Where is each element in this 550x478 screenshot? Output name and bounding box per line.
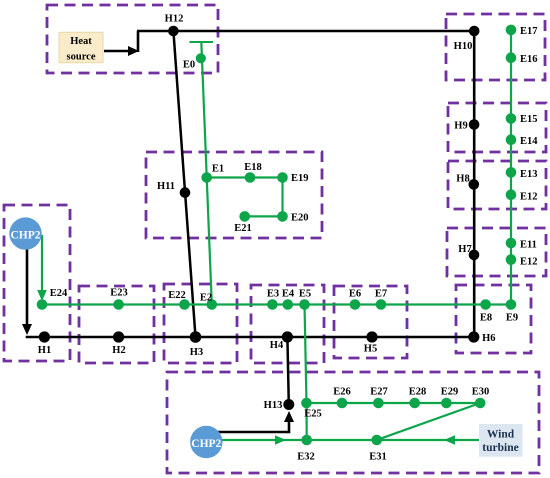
wire generator bar above E0 (green) <box>190 41 214 43</box>
wire slanted feeder E0-E1-E2 (green) <box>201 42 212 305</box>
svg-text:E25: E25 <box>304 409 322 420</box>
svg-text:E31: E31 <box>369 452 387 463</box>
node E21 <box>234 211 252 234</box>
svg-text:H10: H10 <box>454 41 473 52</box>
wind turbine <box>479 424 523 457</box>
region box middle (H11 / E1 / E18-E21) <box>146 152 322 238</box>
wire E19-E20 (green) <box>281 178 283 217</box>
node E16 <box>506 52 538 65</box>
node H8 <box>456 174 479 190</box>
svg-text:CHP2: CHP2 <box>10 230 40 242</box>
region box left tall (CHP2 / E24 / H1) <box>4 205 70 361</box>
wire CHP2a to E24 (green, down arrow) <box>37 235 47 301</box>
svg-text:Wind: Wind <box>487 429 515 441</box>
node E27 <box>370 387 388 409</box>
region box H8/E13/E12 <box>448 161 546 209</box>
node H4 <box>270 331 293 351</box>
node H12 <box>165 14 184 37</box>
region box H7/E11/E12 <box>447 228 546 276</box>
wire E5-E25-E32 (green) <box>305 305 307 441</box>
node E11 <box>506 238 537 251</box>
svg-text:E20: E20 <box>291 213 309 224</box>
node E12 lower <box>506 254 538 267</box>
node E25 <box>301 398 322 420</box>
region box E22/E2/H3 <box>164 284 237 363</box>
node E28 <box>409 387 427 409</box>
node E7 <box>375 289 387 310</box>
svg-text:E7: E7 <box>375 289 387 300</box>
node E18 <box>244 162 262 183</box>
node H7 <box>458 244 479 260</box>
svg-text:E1: E1 <box>212 164 224 175</box>
wire main electric bus E24-E9 (green) <box>42 303 511 305</box>
svg-text:H3: H3 <box>190 347 203 358</box>
node E29 <box>441 387 459 409</box>
region box top-left (heat source / H12 / E0) <box>47 5 218 73</box>
svg-text:E16: E16 <box>520 54 538 65</box>
svg-text:E23: E23 <box>110 288 128 299</box>
node H11 <box>157 181 190 198</box>
svg-text:E26: E26 <box>333 387 351 398</box>
svg-text:E0: E0 <box>183 60 195 71</box>
svg-text:H13: H13 <box>264 400 283 411</box>
CHP2 unit top-left <box>9 217 41 249</box>
node H3 <box>190 331 203 358</box>
svg-text:H9: H9 <box>454 121 467 132</box>
svg-text:E30: E30 <box>472 387 490 398</box>
svg-text:H11: H11 <box>157 181 175 192</box>
svg-text:E22: E22 <box>168 290 186 301</box>
svg-text:CHP2: CHP2 <box>191 438 221 450</box>
wire H4-H13 (black) <box>287 337 288 405</box>
node H5 <box>364 331 378 354</box>
svg-text:E8: E8 <box>480 313 492 324</box>
svg-text:E5: E5 <box>299 289 311 300</box>
svg-text:E9: E9 <box>506 313 518 324</box>
heat source <box>59 32 103 62</box>
wire bottom bus CHP2b-E32-E31-wind turbine (green, arrows) <box>214 435 480 445</box>
node E9 <box>506 299 518 323</box>
node E31 <box>369 435 387 463</box>
node E20 <box>277 211 308 223</box>
region box bottom (CHP2 / H13 / E25-E32 / wind turbine) <box>167 372 539 473</box>
svg-text:E19: E19 <box>291 173 309 184</box>
svg-text:E6: E6 <box>349 289 361 300</box>
svg-text:E29: E29 <box>441 387 459 398</box>
node E4 <box>282 289 295 310</box>
svg-text:H12: H12 <box>165 14 184 25</box>
node H6 <box>468 331 495 344</box>
node E6 <box>349 289 361 310</box>
svg-text:E17: E17 <box>520 26 538 37</box>
node E12 upper <box>506 189 538 202</box>
svg-text:source: source <box>67 52 96 63</box>
node E8 <box>480 299 492 323</box>
region box H9/E15/E14 <box>448 103 546 152</box>
svg-text:E15: E15 <box>520 114 538 125</box>
node E19 <box>277 172 308 184</box>
node E2 <box>200 293 217 310</box>
node E26 <box>333 387 351 409</box>
svg-text:E21: E21 <box>234 223 252 234</box>
svg-text:E4: E4 <box>282 289 295 300</box>
wire right electric feeder E9-E17 (green) <box>510 30 512 305</box>
svg-text:H4: H4 <box>270 340 284 351</box>
svg-text:E12: E12 <box>520 192 538 203</box>
svg-text:E12: E12 <box>520 257 538 268</box>
svg-text:E24: E24 <box>50 288 68 299</box>
wire heat source to top bus (black, with right arrow) <box>104 31 139 56</box>
node H13 <box>264 399 295 411</box>
node E23 <box>110 288 128 310</box>
node E13 <box>506 167 538 180</box>
region box E23/H2 <box>79 286 154 363</box>
svg-text:turbine: turbine <box>482 442 518 454</box>
wire bottom electric bus E25-E30 (green) <box>307 402 481 404</box>
svg-text:H8: H8 <box>456 174 469 185</box>
node H1 <box>38 331 51 356</box>
svg-text:E11: E11 <box>520 240 537 251</box>
wire slanted heat pipe H12-H11-H3 (black) <box>173 31 195 337</box>
svg-text:H6: H6 <box>482 333 495 344</box>
svg-text:E3: E3 <box>267 289 279 300</box>
node E24 <box>37 288 68 310</box>
svg-text:H5: H5 <box>364 344 377 355</box>
node E17 <box>506 25 538 37</box>
node E32 <box>297 435 315 463</box>
svg-text:E28: E28 <box>409 387 427 398</box>
svg-text:Heat: Heat <box>70 36 92 47</box>
wire bottom heat bus H1-H6 (black) <box>26 336 474 339</box>
region box H6/E8/E9 <box>456 285 531 353</box>
wire E1-E18-E19 (green) <box>207 176 283 178</box>
node E3 <box>267 289 279 310</box>
wire CHP2a to heat bus (black, down arrow) <box>22 248 32 335</box>
node H2 <box>112 331 125 356</box>
svg-text:E27: E27 <box>370 387 388 398</box>
node E5 <box>299 289 311 310</box>
CHP2 unit bottom <box>190 426 222 458</box>
svg-text:E32: E32 <box>297 452 315 463</box>
svg-text:H1: H1 <box>38 345 51 356</box>
wire E21-E20 (green) <box>245 215 283 217</box>
node H9 <box>454 119 479 131</box>
node H10 <box>454 26 480 52</box>
node E14 <box>506 134 539 146</box>
wire diagonal E30-E31 (green) <box>377 403 481 440</box>
wire right heat pipe H10-H6 (black) <box>473 31 476 337</box>
svg-text:E13: E13 <box>520 169 538 180</box>
node E22 <box>168 290 190 310</box>
svg-text:E14: E14 <box>520 136 538 147</box>
region box E6/E7/H5 <box>334 286 407 358</box>
node E30 <box>472 387 490 409</box>
wire top heat bus H12-H10 (black) <box>137 30 475 33</box>
wire CHP2b to H13 (black, up arrow) <box>214 411 294 432</box>
node E15 <box>506 113 538 125</box>
svg-text:H2: H2 <box>112 345 125 356</box>
region box H10/E17/E16 <box>446 14 545 80</box>
svg-text:E18: E18 <box>244 162 262 173</box>
node E1 <box>201 164 224 183</box>
svg-text:E2: E2 <box>200 293 212 304</box>
svg-text:H7: H7 <box>458 244 471 255</box>
region box E3/E4/E5/H4 <box>251 285 324 363</box>
node E0 <box>183 53 206 70</box>
